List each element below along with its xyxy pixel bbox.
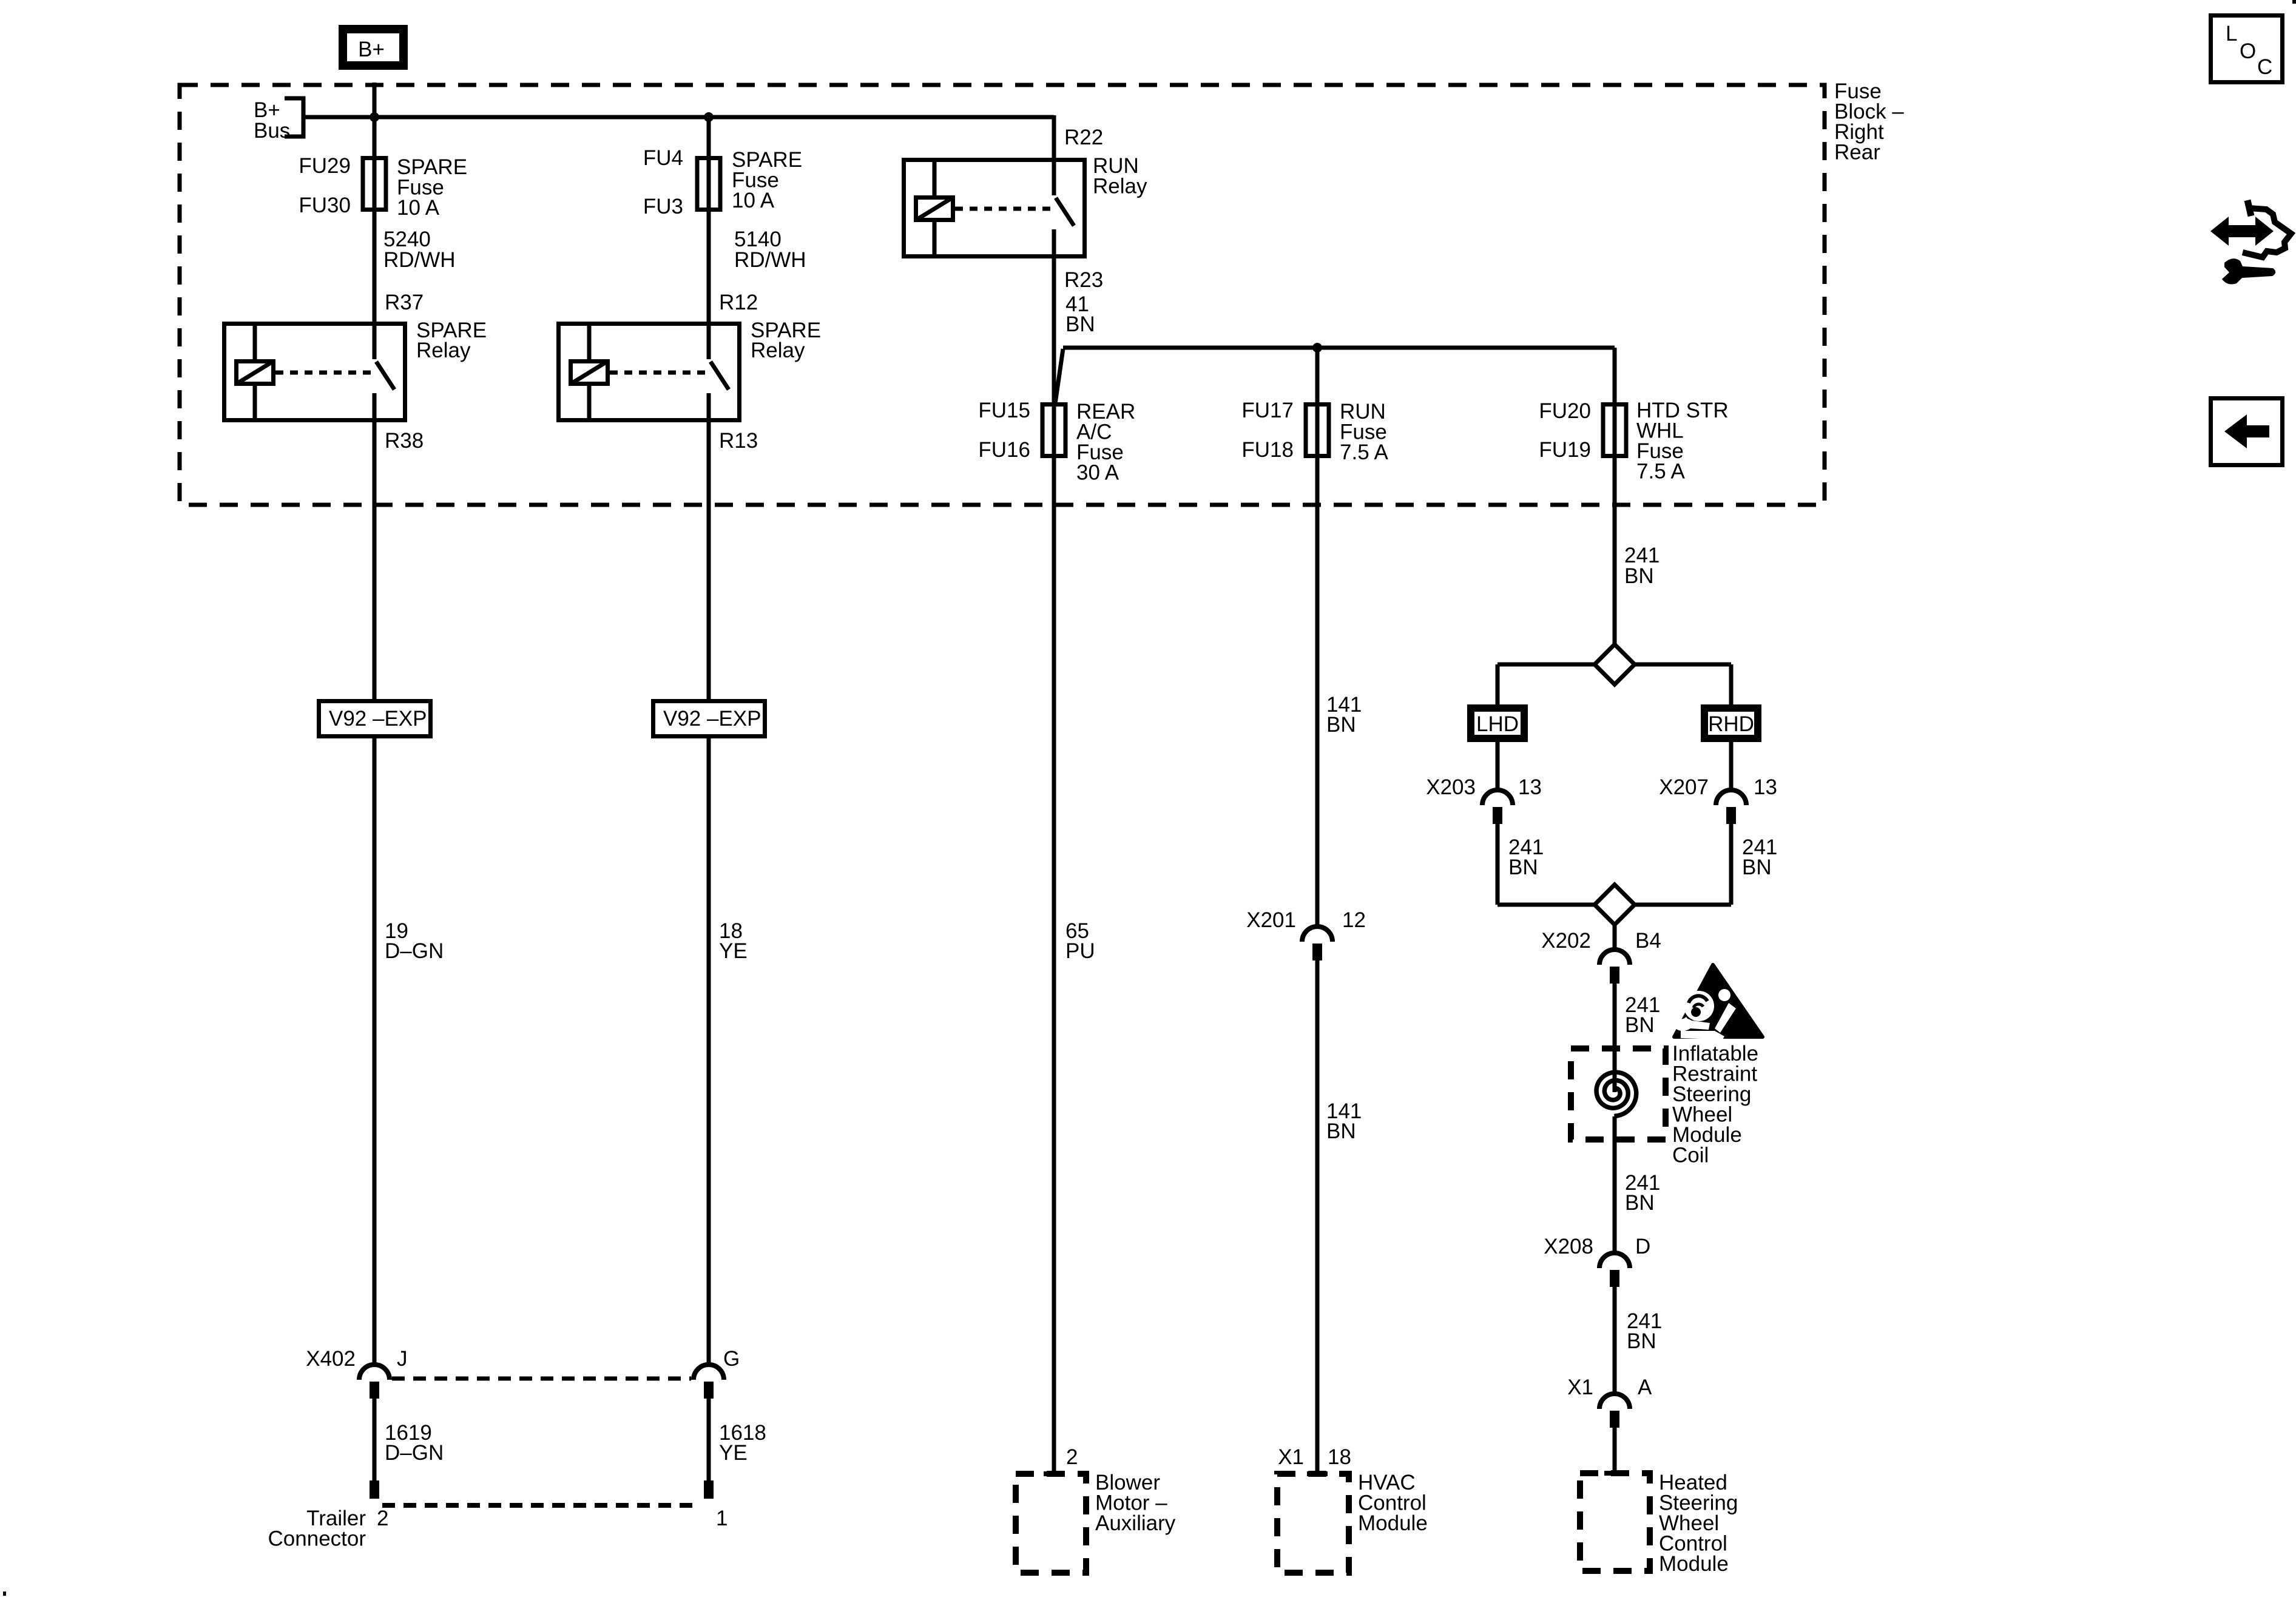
fuse FU17/FU18 RUN 7.5A xyxy=(1306,405,1329,456)
svg-text:X208: X208 xyxy=(1544,1235,1593,1258)
svg-text:Auxiliary: Auxiliary xyxy=(1095,1511,1176,1535)
svg-text:7.5 A: 7.5 A xyxy=(1636,460,1685,484)
diagonal jog from feed wire to FU15 xyxy=(1055,349,1063,403)
wire splice to X202 xyxy=(1613,925,1617,951)
svg-text:Rear: Rear xyxy=(1834,141,1880,164)
wire bus corner down to RUN relay R22 xyxy=(1052,115,1056,195)
relay R37/R38 coil-to-switch dashed link xyxy=(275,371,371,375)
svg-text:7.5 A: 7.5 A xyxy=(1340,441,1388,464)
svg-text:R12: R12 xyxy=(719,291,758,314)
svg-text:2: 2 xyxy=(1066,1445,1078,1469)
svg-text:FU18: FU18 xyxy=(1241,438,1294,462)
svg-text:RHD: RHD xyxy=(1708,712,1754,736)
fuse block dashed border (Fuse Block - Right Rear) xyxy=(180,85,1825,505)
relay RUN R22/R23 coil xyxy=(933,158,937,195)
svg-text:2: 2 xyxy=(377,1507,388,1530)
svg-text:10 A: 10 A xyxy=(397,196,440,220)
connector X201 half-circle + terminal xyxy=(1302,927,1332,942)
svg-text:J: J xyxy=(397,1347,408,1371)
svg-text:FU3: FU3 xyxy=(643,195,683,218)
back arrow box xyxy=(2211,399,2283,465)
wire 1619 D-GN to trailer connector xyxy=(373,1398,377,1480)
svg-text:30 A: 30 A xyxy=(1076,461,1119,485)
wire junction down through FU17 fuse xyxy=(1315,348,1320,460)
fuse FU29/FU30 SPARE xyxy=(363,158,386,210)
wire tick at HVAC box top xyxy=(1307,1471,1328,1476)
wire tick at blower box top xyxy=(1044,1471,1064,1476)
wire branch to LHD xyxy=(1497,663,1595,667)
node junction feed/FU17 xyxy=(1312,343,1322,353)
svg-text:RD/WH: RD/WH xyxy=(734,248,806,272)
wire 241 BN LHD to splice xyxy=(1496,823,1500,905)
horizontal feed wire to FU17 and FU20 xyxy=(1063,346,1615,350)
relay R12/R13 lower contact pin xyxy=(707,393,711,422)
svg-text:FU4: FU4 xyxy=(643,146,683,170)
svg-text:R37: R37 xyxy=(385,291,424,314)
svg-text:BN: BN xyxy=(1508,856,1538,879)
relay RUN R22/R23 switch blade xyxy=(1056,198,1074,226)
module box Blower Motor - Auxiliary (dashed) xyxy=(1016,1474,1086,1573)
relay R37/R38 box xyxy=(225,324,405,420)
airbag warning triangle icon xyxy=(1674,965,1763,1037)
wire 241 BN X202 to coil xyxy=(1613,983,1617,1092)
svg-text:BN: BN xyxy=(1742,856,1772,879)
svg-text:D: D xyxy=(1635,1235,1650,1258)
fuse FU4/FU3 SPARE xyxy=(697,158,720,210)
svg-text:L: L xyxy=(2226,22,2237,46)
svg-text:FU30: FU30 xyxy=(299,194,351,217)
svg-text:1: 1 xyxy=(716,1507,728,1530)
wire 141 BN from FU18 to X201 xyxy=(1315,458,1320,928)
svg-text:Bus: Bus xyxy=(254,119,290,143)
svg-text:G: G xyxy=(723,1347,740,1371)
svg-text:R22: R22 xyxy=(1064,126,1103,149)
B+ Bus bracket xyxy=(285,98,303,137)
svg-text:R38: R38 xyxy=(385,429,424,453)
relay R12/R13 box xyxy=(559,324,740,420)
relay R12/R13 switch blade xyxy=(711,362,729,390)
trailer connector terminal 1 xyxy=(704,1480,714,1499)
wire 2 from V92 to X402 connector G xyxy=(707,738,711,1366)
svg-text:BN: BN xyxy=(1065,312,1095,336)
wire 65 PU from FU16 to blower motor xyxy=(1052,458,1056,1474)
wire R23 41 BN down to FU15 fuse xyxy=(1052,229,1056,460)
wire exits coil downward xyxy=(1613,1116,1617,1255)
wire 1 from V92 to X402 connector xyxy=(373,738,377,1366)
dashed connector-to-connector line X402 xyxy=(392,1377,691,1381)
module box HVAC Control Module (dashed) xyxy=(1277,1474,1349,1573)
svg-text:R13: R13 xyxy=(719,429,758,453)
svg-text:BN: BN xyxy=(1326,713,1356,737)
relay R12/R13 coil-to-switch dashed link xyxy=(610,371,706,375)
option box LHD xyxy=(1471,708,1524,738)
wire feed corner down through FU20 fuse xyxy=(1613,348,1617,460)
splice diamond (bottom) xyxy=(1497,903,1595,907)
relay R37/R38 switch blade xyxy=(376,362,394,390)
svg-text:BN: BN xyxy=(1624,564,1654,588)
svg-text:RD/WH: RD/WH xyxy=(383,248,456,272)
svg-text:X207: X207 xyxy=(1659,775,1709,799)
relay RUN R22/R23 lower contact pin xyxy=(1052,229,1056,258)
svg-text:10 A: 10 A xyxy=(732,189,775,212)
trailer connector terminal 2 xyxy=(370,1480,379,1499)
svg-text:X402: X402 xyxy=(306,1347,356,1371)
svg-text:FU17: FU17 xyxy=(1241,399,1294,422)
svg-text:V92 –EXP: V92 –EXP xyxy=(663,707,761,731)
svg-text:D–GN: D–GN xyxy=(385,939,444,963)
svg-text:Connector: Connector xyxy=(268,1527,366,1551)
connector X203 half-circle + terminal xyxy=(1482,790,1513,805)
fuse FU20/FU19 HTD STR WHL 7.5A xyxy=(1603,405,1626,456)
relay RUN R22/R23 coil-to-switch dashed link xyxy=(955,207,1051,211)
svg-text:V92 –EXP: V92 –EXP xyxy=(329,707,427,731)
relay R37/R38 coil xyxy=(253,322,257,359)
node junction bus/FU4 wire xyxy=(704,112,714,122)
wire 1 from dashed border through FU29 fuse to relay switch contact xyxy=(373,83,377,359)
svg-text:18: 18 xyxy=(1328,1445,1351,1469)
fuse FU15/FU16 REAR A/C 30A xyxy=(1042,405,1065,456)
svg-text:C: C xyxy=(2257,55,2272,79)
svg-text:X1: X1 xyxy=(1278,1445,1304,1469)
connector X202 half-circle + terminal xyxy=(1599,950,1630,965)
svg-text:13: 13 xyxy=(1518,775,1542,799)
svg-text:PU: PU xyxy=(1065,939,1095,963)
svg-text:YE: YE xyxy=(719,939,748,963)
wire 241 BN RHD to splice xyxy=(1729,823,1734,905)
svg-text:Relay: Relay xyxy=(1093,175,1147,198)
relay R12/R13 coil xyxy=(587,322,592,359)
svg-text:FU19: FU19 xyxy=(1539,438,1591,462)
svg-text:Coil: Coil xyxy=(1672,1144,1709,1167)
svg-text:BN: BN xyxy=(1627,1329,1656,1353)
svg-text:X202: X202 xyxy=(1541,929,1591,953)
page corner mark xyxy=(2292,0,2296,4)
inline harness connector V92 -EXP (left) xyxy=(319,701,431,737)
svg-text:FU15: FU15 xyxy=(978,399,1030,422)
wire RHD to X207 xyxy=(1729,742,1734,792)
wire 2 from bus junction through FU4 fuse to relay switch contact xyxy=(707,117,711,359)
relay R37/R38 lower contact pin xyxy=(373,393,377,422)
svg-text:BN: BN xyxy=(1625,1013,1655,1037)
wire branch to RHD xyxy=(1635,663,1731,667)
svg-text:BN: BN xyxy=(1326,1119,1356,1143)
svg-text:D–GN: D–GN xyxy=(385,1441,444,1465)
svg-text:B+: B+ xyxy=(358,38,385,61)
connector X1 half-circle + terminal xyxy=(1599,1394,1630,1409)
svg-text:X203: X203 xyxy=(1426,775,1476,799)
svg-text:FU16: FU16 xyxy=(978,438,1030,462)
svg-text:Module: Module xyxy=(1659,1552,1729,1576)
svg-text:B4: B4 xyxy=(1635,929,1661,953)
svg-text:O: O xyxy=(2240,39,2256,63)
power symbol B+ xyxy=(343,29,403,66)
wire 241 BN from FU19 to splice diamond xyxy=(1613,458,1617,644)
node junction bus/FU29 wire xyxy=(370,112,379,122)
svg-text:FU20: FU20 xyxy=(1539,399,1591,423)
clockspring coil spiral xyxy=(1596,1072,1636,1116)
dashed box inflatable restraint coil xyxy=(1571,1048,1666,1139)
svg-text:X1: X1 xyxy=(1567,1376,1593,1399)
wire 141 BN from X201 to HVAC module xyxy=(1315,960,1320,1474)
svg-text:12: 12 xyxy=(1342,908,1366,932)
inline harness connector V92 -EXP (right) xyxy=(653,701,765,737)
wire 1618 YE to trailer connector xyxy=(707,1398,711,1480)
wire to heated steering wheel module xyxy=(1613,1427,1617,1473)
svg-text:Relay: Relay xyxy=(751,339,805,362)
svg-text:13: 13 xyxy=(1754,775,1777,799)
svg-text:FU29: FU29 xyxy=(299,154,351,178)
svg-text:YE: YE xyxy=(719,1441,748,1465)
svg-text:R23: R23 xyxy=(1064,268,1103,292)
diagnostic icon: double arrow, outline, wrench xyxy=(2210,217,2274,246)
page bottom-left dot xyxy=(3,1592,6,1596)
wire 2 relay R13 down to V92 box xyxy=(707,393,711,699)
relay RUN R22/R23 box xyxy=(904,160,1085,257)
connector X402 pin G half-circle + terminal xyxy=(694,1365,724,1380)
module box Heated Steering Wheel Control Module (dashed) xyxy=(1580,1473,1650,1571)
svg-text:A: A xyxy=(1638,1376,1652,1399)
option box RHD xyxy=(1704,708,1758,738)
dashed trailer connector line xyxy=(382,1503,694,1508)
wire 1 relay R38 down to V92 box xyxy=(373,393,377,699)
splice diamond (top) xyxy=(1595,644,1635,684)
wire B+ bus horizontal xyxy=(303,115,1054,120)
wire tick at heated module box top xyxy=(1604,1471,1625,1476)
connector X402 pin J half-circle + terminal xyxy=(359,1365,390,1380)
LOC reference box xyxy=(2211,16,2283,83)
svg-text:X201: X201 xyxy=(1246,908,1296,932)
wire 241 BN X208 to X1 xyxy=(1613,1286,1617,1396)
svg-text:LHD: LHD xyxy=(1476,712,1519,736)
connector X207 half-circle + terminal xyxy=(1716,790,1746,805)
svg-text:Relay: Relay xyxy=(416,339,471,362)
connector X208 half-circle + terminal xyxy=(1599,1253,1630,1268)
svg-text:Module: Module xyxy=(1358,1511,1428,1535)
wire LHD to X203 xyxy=(1496,742,1500,792)
svg-text:BN: BN xyxy=(1625,1191,1655,1215)
